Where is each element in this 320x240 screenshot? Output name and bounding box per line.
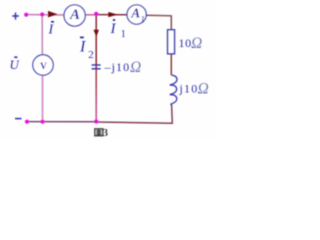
svg-text:1: 1 xyxy=(121,29,126,40)
wire right branch between resistor and inductor xyxy=(170,54,172,75)
wire middle branch upper xyxy=(95,14,97,68)
svg-text:V: V xyxy=(40,62,47,72)
current arrow I2 (down) xyxy=(94,30,100,37)
node A top-left junction xyxy=(40,12,44,16)
node B top-middle junction xyxy=(94,12,98,16)
node: + terminal dot xyxy=(24,13,28,17)
ammeter A xyxy=(64,5,85,26)
wire top-left horizontal segment xyxy=(26,14,65,16)
node: - terminal dot xyxy=(25,120,29,124)
svg-text:–j10: –j10 xyxy=(104,60,131,74)
svg-text:I: I xyxy=(79,39,86,56)
svg-text:2: 2 xyxy=(88,49,94,61)
svg-text:I: I xyxy=(110,21,117,37)
svg-text:Ω: Ω xyxy=(198,81,209,98)
ammeter A1 xyxy=(127,5,146,24)
capacitor C -j10ohm plates xyxy=(92,64,101,66)
svg-text:Ω: Ω xyxy=(130,59,141,76)
wire top segment node B to ammeter A1 xyxy=(96,14,128,16)
wire ammeter A1 to top-right corner xyxy=(146,15,171,30)
wire left branch lower xyxy=(42,75,44,122)
label - polarity xyxy=(15,118,22,120)
caption figure 3 glyph xyxy=(95,129,103,136)
wire middle branch lower xyxy=(95,67,97,122)
current arrow I1 (right) xyxy=(108,12,117,17)
node bottom-middle junction xyxy=(94,119,98,123)
svg-text:3: 3 xyxy=(103,128,108,139)
svg-text:A: A xyxy=(69,7,80,23)
inductor L j10ohm coil xyxy=(170,75,177,105)
wire top segment between ammeter A and node B xyxy=(85,14,96,16)
current arrow I (right) xyxy=(48,11,58,18)
svg-text:U: U xyxy=(10,57,21,72)
svg-text:1: 1 xyxy=(140,16,145,26)
wire right branch below inductor xyxy=(96,105,172,123)
svg-text:j10: j10 xyxy=(179,82,199,96)
svg-text:A: A xyxy=(130,5,140,20)
voltmeter V xyxy=(33,55,53,75)
svg-text:Ω: Ω xyxy=(191,35,202,52)
wire left branch upper xyxy=(41,15,43,56)
resistor R 10ohm box xyxy=(168,30,175,54)
svg-text:10: 10 xyxy=(179,36,192,50)
svg-text:I: I xyxy=(48,23,55,38)
wire bottom segment xyxy=(27,121,96,123)
node bottom-left junction xyxy=(40,120,44,124)
label + polarity xyxy=(12,13,18,20)
